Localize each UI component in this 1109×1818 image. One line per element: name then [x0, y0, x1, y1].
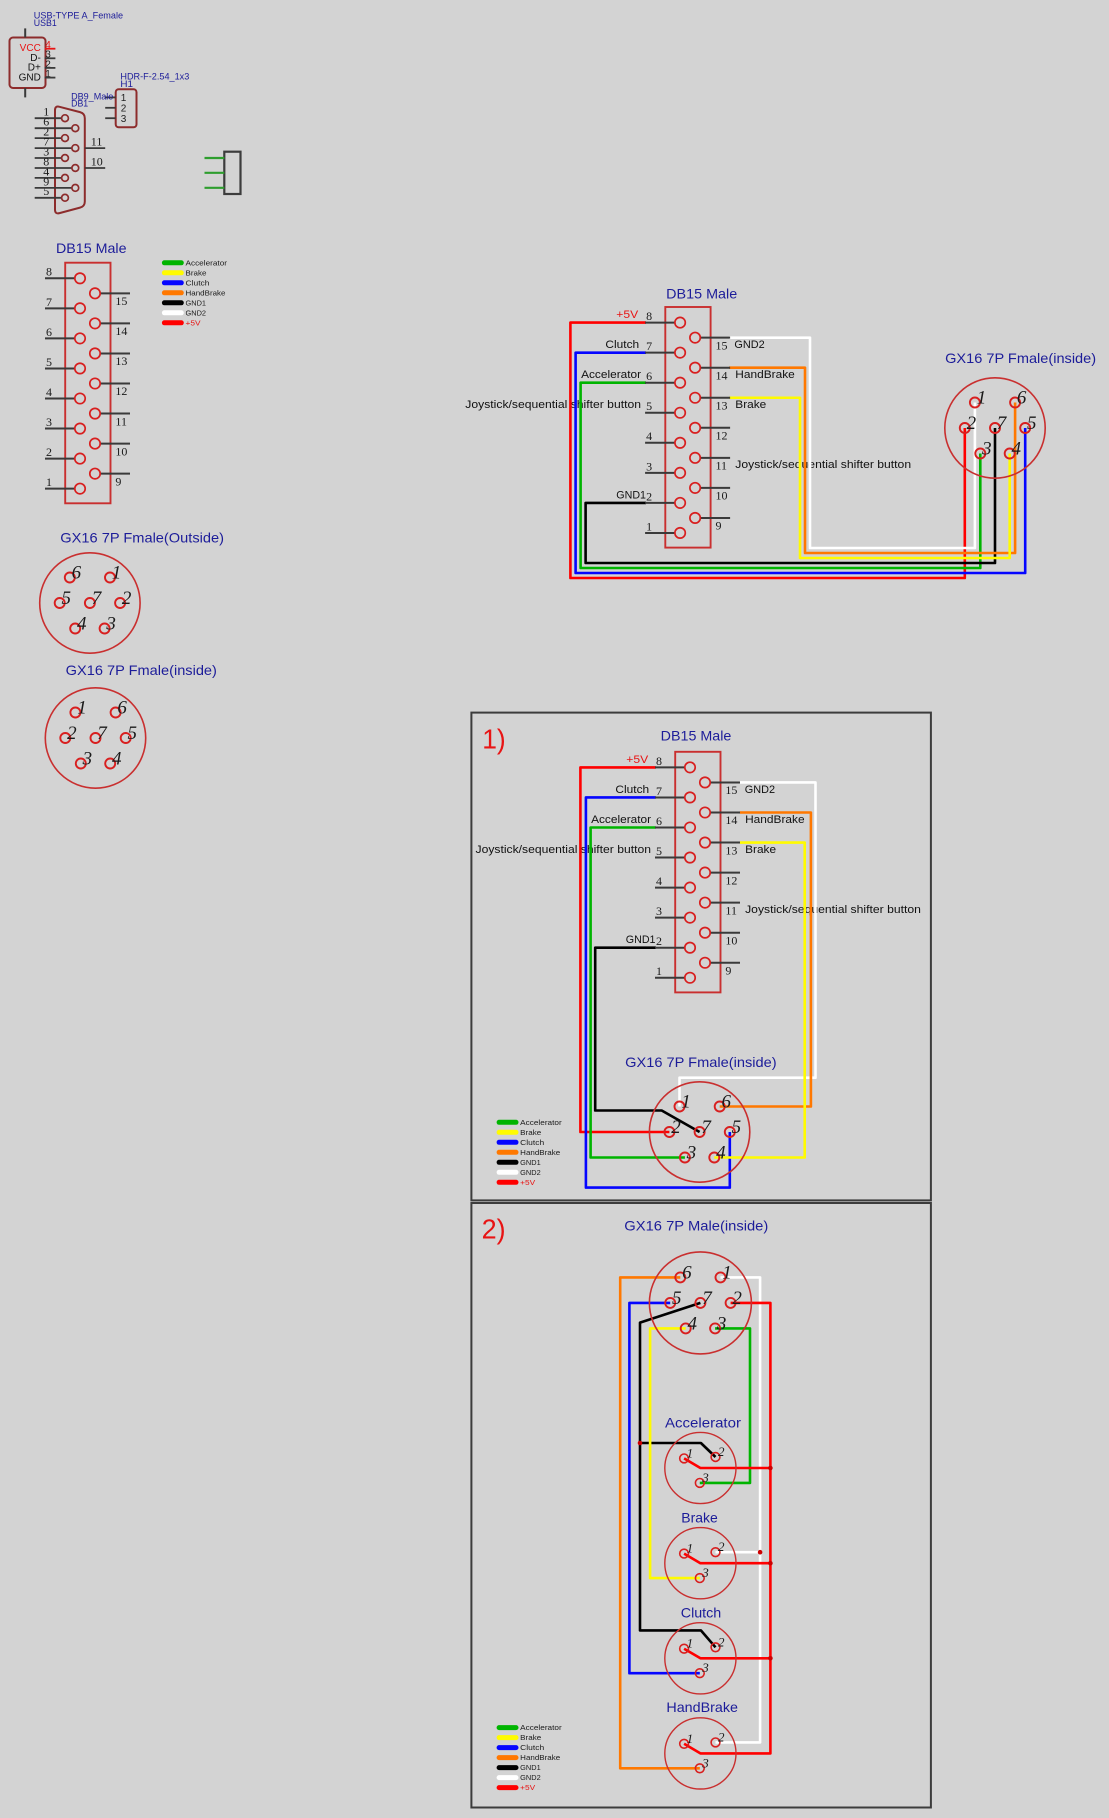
- title DB15 Male (box1): [661, 728, 732, 744]
- legend box1 Brake: [497, 1128, 542, 1137]
- svg-text:1: 1: [45, 69, 51, 80]
- net label GND2 (box1): [745, 784, 775, 796]
- svg-text:GND1: GND1: [626, 934, 656, 946]
- svg-text:4: 4: [112, 749, 122, 770]
- legend box1 HandBrake: [497, 1148, 561, 1157]
- Accelerator pin 2: [711, 1444, 725, 1461]
- connector DB1 body: [55, 107, 85, 214]
- net label +5V (box1): [626, 754, 649, 766]
- svg-text:4: 4: [688, 1313, 698, 1334]
- Brake pin 3: [695, 1565, 709, 1582]
- svg-text:1: 1: [687, 1445, 694, 1460]
- DB15-A pin 1: [45, 475, 85, 494]
- svg-text:Accelerator: Accelerator: [520, 1118, 562, 1127]
- GX16-Outside pin 7: [85, 588, 103, 609]
- DB15-box1 pin 9: [700, 958, 740, 978]
- label USB1 USB-TYPE A_Female: [34, 10, 123, 29]
- svg-text:DB15 Male: DB15 Male: [56, 240, 127, 256]
- DB15-box1 pin 13: [700, 837, 740, 857]
- DB1 pin 11: [85, 135, 105, 149]
- junction +5V at Accelerator: [768, 1466, 773, 1471]
- GX16-box1 pin 2: [664, 1117, 681, 1138]
- svg-text:14: 14: [725, 813, 737, 827]
- svg-text:1: 1: [687, 1541, 694, 1556]
- svg-text:GND2: GND2: [186, 308, 207, 317]
- USB1 pin 3 (D-): [45, 50, 56, 61]
- DB15-A pin 12: [90, 378, 130, 398]
- net label Joystick/sequential shifter button (left): [465, 399, 641, 411]
- svg-text:7: 7: [646, 339, 652, 353]
- DB15-box1 pin 5: [655, 844, 695, 863]
- wire Accelerator (green) DB15.6 to GX16.3: [581, 383, 981, 568]
- svg-text:GND2: GND2: [745, 784, 775, 796]
- DB15-box1 body: [675, 752, 720, 993]
- legend box2 GND1: [497, 1763, 541, 1772]
- DB1 pin 5: [35, 184, 69, 201]
- GX16-box1 pin 5: [725, 1117, 741, 1138]
- svg-text:3: 3: [701, 1660, 709, 1675]
- title GX16 7P Fmale(Outside): [60, 529, 224, 545]
- GX16-inside-A pin 4: [105, 749, 122, 770]
- GX16-mid pin 4: [1005, 439, 1022, 460]
- GX16-mid pin 5: [1020, 413, 1036, 434]
- DB15-box1 pin 1: [655, 964, 695, 983]
- svg-text:Joystick/sequential shifter bu: Joystick/sequential shifter button: [735, 459, 911, 471]
- DB15-A pin 7: [45, 295, 85, 314]
- svg-text:1: 1: [722, 1262, 732, 1283]
- svg-text:15: 15: [725, 783, 737, 797]
- wire HandBrake (orange) DB15.14 to GX16.6 (box1): [720, 813, 811, 1107]
- H1 pin 3: [105, 114, 127, 125]
- DB15-mid pin 11: [690, 453, 730, 473]
- wire Accelerator (green) GX16.3 to Accelerator.3: [700, 1328, 750, 1483]
- wire Brake (yellow) GX16.4 to Brake.3: [650, 1328, 700, 1578]
- svg-text:13: 13: [716, 398, 728, 412]
- svg-text:8: 8: [43, 154, 49, 168]
- net label +5V: [616, 309, 639, 321]
- title GX16 7P Fmale(inside) (middle): [945, 350, 1096, 366]
- connector H1 body: [116, 89, 137, 127]
- svg-text:4: 4: [656, 874, 662, 888]
- USB1 pin 4 (VCC): [45, 40, 56, 51]
- GX16-box1 pin 6: [715, 1092, 732, 1113]
- svg-text:6: 6: [722, 1092, 732, 1113]
- junction +5V at Clutch: [768, 1656, 773, 1661]
- legend box2 Accelerator: [497, 1723, 563, 1732]
- GX16-inside-A pin 1: [70, 698, 86, 719]
- svg-text:6: 6: [46, 325, 52, 339]
- HandBrake pin 3: [695, 1755, 709, 1772]
- title DB15 Male (top-left): [56, 240, 127, 256]
- svg-text:2: 2: [718, 1539, 725, 1554]
- GX16-box2 pin 7: [695, 1288, 713, 1309]
- svg-text:4: 4: [716, 1143, 726, 1164]
- GX16-inside-A body: [45, 688, 145, 788]
- GX16-box2 pin 6: [675, 1262, 692, 1283]
- GX16-box2 pin 3: [710, 1313, 726, 1334]
- title Clutch: [681, 1605, 722, 1621]
- DB15-A pin 3: [45, 415, 85, 434]
- legend top Accelerator: [162, 258, 228, 267]
- GX16-Outside body: [40, 553, 140, 653]
- net label Joystick/sequential shifter button (box1 left): [476, 844, 652, 856]
- svg-text:DB15 Male: DB15 Male: [666, 285, 737, 301]
- svg-text:Accelerator: Accelerator: [186, 258, 228, 267]
- DB1 pin 1: [35, 105, 69, 122]
- GX16-inside-A pin 2: [60, 723, 77, 744]
- svg-text:7: 7: [702, 1288, 713, 1309]
- Brake pin 1: [680, 1541, 693, 1558]
- wire Clutch (blue) DB15.7 to GX16.5: [576, 353, 1026, 573]
- DB1 pin 10: [85, 154, 105, 168]
- legend top Brake: [162, 268, 207, 277]
- svg-text:6: 6: [646, 369, 652, 383]
- svg-text:3: 3: [701, 1565, 709, 1580]
- DB15-mid pin 6: [645, 369, 685, 388]
- svg-text:HandBrake: HandBrake: [520, 1148, 560, 1157]
- svg-text:1): 1): [482, 724, 506, 755]
- svg-text:Clutch: Clutch: [520, 1743, 544, 1752]
- svg-text:GX16 7P Fmale(inside): GX16 7P Fmale(inside): [945, 350, 1096, 366]
- DB15-box1 pin 10: [700, 928, 740, 948]
- HandBrake body: [665, 1718, 736, 1789]
- svg-text:14: 14: [716, 368, 728, 382]
- legend box1 Accelerator: [497, 1118, 563, 1127]
- GX16-Outside pin 4: [70, 614, 87, 635]
- svg-text:3: 3: [686, 1143, 697, 1164]
- GX16-mid pin 7: [990, 413, 1008, 434]
- wire Clutch (blue) DB15.7 to GX16.5 (box1): [586, 797, 730, 1187]
- DB15-A pin 15: [90, 288, 130, 308]
- Clutch pin 2: [711, 1634, 725, 1651]
- svg-text:DB15 Male: DB15 Male: [661, 728, 732, 744]
- USB1 pin 2 (D+): [45, 59, 56, 70]
- svg-text:7: 7: [43, 135, 49, 149]
- net label HandBrake (box1): [745, 814, 805, 826]
- svg-text:3: 3: [981, 439, 992, 460]
- svg-text:13: 13: [115, 354, 127, 368]
- net label Accelerator (box1): [591, 814, 651, 826]
- net label GND1: [616, 489, 646, 501]
- svg-text:1: 1: [121, 93, 127, 104]
- svg-text:Clutch: Clutch: [615, 784, 649, 796]
- svg-text:GND2: GND2: [734, 339, 764, 351]
- svg-text:8: 8: [656, 754, 662, 768]
- DB15-mid pin 2: [645, 489, 685, 508]
- svg-text:5: 5: [62, 588, 72, 609]
- DB15-mid pin 15: [690, 332, 730, 352]
- Accelerator body: [665, 1432, 736, 1503]
- title DB15 Male (middle): [666, 285, 737, 301]
- svg-text:+5V: +5V: [616, 309, 639, 321]
- svg-text:1: 1: [687, 1731, 694, 1746]
- svg-text:3: 3: [716, 1313, 727, 1334]
- svg-text:3: 3: [121, 114, 127, 125]
- DB15-A pin 4: [45, 385, 85, 404]
- Brake body: [665, 1528, 736, 1599]
- DB15-A body: [65, 263, 110, 504]
- legend top +5V: [162, 318, 201, 327]
- DB15-mid pin 4: [645, 429, 685, 448]
- svg-text:3: 3: [82, 749, 93, 770]
- wire GND1 (black) DB15.2 to GX16.7: [586, 428, 995, 563]
- svg-text:1: 1: [687, 1636, 694, 1651]
- svg-text:10: 10: [725, 933, 737, 947]
- svg-text:2: 2: [732, 1288, 742, 1309]
- svg-text:Brake: Brake: [735, 399, 766, 411]
- wire GND2 (white) DB15.15 to GX16.1: [729, 338, 975, 548]
- GX16-mid pin 6: [1010, 388, 1027, 409]
- GX16-box2 pin 4: [681, 1313, 698, 1334]
- svg-text:11: 11: [725, 903, 737, 917]
- svg-text:Accelerator: Accelerator: [520, 1723, 562, 1732]
- GX16-mid pin 2: [960, 413, 977, 434]
- DB15-A pin 9: [90, 468, 130, 488]
- svg-text:Joystick/sequential shifter bu: Joystick/sequential shifter button: [465, 399, 641, 411]
- svg-text:6: 6: [43, 115, 49, 129]
- DB15-box1 pin 8: [655, 754, 695, 773]
- svg-text:HandBrake: HandBrake: [745, 814, 805, 826]
- svg-text:HandBrake: HandBrake: [735, 369, 795, 381]
- svg-text:6: 6: [1017, 388, 1027, 409]
- DB1 pin 8: [35, 154, 79, 171]
- svg-text:2: 2: [121, 104, 127, 115]
- svg-text:Clutch: Clutch: [186, 278, 210, 287]
- svg-text:9: 9: [716, 519, 722, 533]
- legend box1 GND1: [497, 1158, 541, 1167]
- svg-text:7: 7: [997, 413, 1008, 434]
- legend box2 GND2: [497, 1773, 541, 1782]
- wire +5V (red) Clutch.1 to bus: [684, 1649, 770, 1659]
- DB15-mid pin 9: [690, 513, 730, 533]
- svg-text:9: 9: [115, 474, 121, 488]
- Clutch body: [665, 1623, 736, 1694]
- svg-text:1: 1: [77, 698, 87, 719]
- HandBrake pin 1: [680, 1731, 693, 1748]
- GX16-Outside pin 1: [105, 563, 121, 584]
- svg-text:GND: GND: [19, 73, 41, 84]
- svg-text:5: 5: [646, 399, 652, 413]
- svg-text:5: 5: [732, 1117, 742, 1138]
- wire GND2 (white) DB15.15 to GX16.1 (box1): [680, 782, 816, 1106]
- Brake pin 2: [711, 1539, 725, 1556]
- svg-text:+5V: +5V: [520, 1178, 535, 1187]
- svg-text:GX16 7P Fmale(Outside): GX16 7P Fmale(Outside): [60, 529, 224, 545]
- svg-text:6: 6: [72, 563, 82, 584]
- DB15-box1 pin 6: [655, 814, 695, 833]
- wire +5V (red) DB15.8 to GX16.2 (box1): [580, 767, 669, 1132]
- svg-text:3: 3: [646, 459, 652, 473]
- DB15-mid pin 7: [645, 339, 685, 358]
- svg-text:HandBrake: HandBrake: [520, 1753, 560, 1762]
- GX16-box1 pin 3: [680, 1143, 696, 1164]
- DB15-box1 pin 15: [700, 777, 740, 797]
- svg-text:7: 7: [97, 723, 108, 744]
- svg-text:2): 2): [482, 1213, 506, 1244]
- svg-text:Brake: Brake: [681, 1509, 718, 1525]
- svg-text:GND2: GND2: [520, 1773, 541, 1782]
- svg-text:4: 4: [46, 385, 52, 399]
- svg-text:15: 15: [115, 294, 127, 308]
- GX16-mid body: [945, 378, 1045, 478]
- svg-text:+5V: +5V: [520, 1783, 535, 1792]
- net label Brake: [735, 399, 766, 411]
- svg-text:2: 2: [718, 1634, 725, 1649]
- DB1 pin 3: [35, 144, 69, 161]
- svg-text:4: 4: [1012, 439, 1022, 460]
- junction +5V at Brake: [768, 1561, 773, 1566]
- svg-text:1: 1: [977, 388, 987, 409]
- junction GND2 at Brake: [758, 1550, 763, 1555]
- svg-text:1: 1: [112, 563, 122, 584]
- legend box2 Brake: [497, 1733, 542, 1742]
- svg-text:11: 11: [91, 135, 103, 149]
- svg-text:Brake: Brake: [186, 268, 207, 277]
- wire HandBrake (orange) DB15.14 to GX16.6: [729, 368, 1015, 553]
- junction GND1 branch: [638, 1441, 643, 1446]
- svg-text:7: 7: [46, 295, 52, 309]
- net label Joystick/sequential shifter button (right): [735, 459, 911, 471]
- wire +5V (red) Accelerator.1 to bus: [684, 1458, 770, 1468]
- svg-text:12: 12: [725, 873, 737, 887]
- DB15-box1 pin 12: [700, 867, 740, 887]
- svg-text:1: 1: [681, 1092, 691, 1113]
- svg-text:GND1: GND1: [616, 489, 646, 501]
- Clutch pin 3: [695, 1660, 709, 1677]
- svg-text:2: 2: [718, 1729, 725, 1744]
- Accelerator pin 3: [695, 1470, 709, 1487]
- net label HandBrake: [735, 369, 795, 381]
- svg-text:Clutch: Clutch: [605, 339, 639, 351]
- svg-text:Joystick/sequential shifter bu: Joystick/sequential shifter button: [476, 844, 652, 856]
- net label GND2: [734, 339, 764, 351]
- svg-text:8: 8: [646, 309, 652, 323]
- GX16-mid pin 3: [975, 439, 991, 460]
- svg-text:9: 9: [725, 963, 731, 977]
- DB15-A pin 14: [90, 318, 130, 338]
- connector J1 body: [224, 152, 240, 194]
- legend box2 Clutch: [497, 1743, 545, 1752]
- net label Brake (box1): [745, 844, 776, 856]
- GX16-inside-A pin 6: [111, 698, 128, 719]
- GX16-box2 pin 5: [665, 1288, 681, 1309]
- HandBrake pin 2: [711, 1729, 725, 1746]
- GX16-Outside pin 6: [65, 563, 82, 584]
- svg-text:5: 5: [128, 723, 138, 744]
- svg-text:2: 2: [671, 1117, 681, 1138]
- DB15-mid pin 14: [690, 363, 730, 383]
- svg-text:HandBrake: HandBrake: [186, 288, 226, 297]
- DB15-A pin 13: [90, 348, 130, 368]
- legend box2 HandBrake: [497, 1753, 561, 1762]
- GX16-inside-A pin 5: [121, 723, 137, 744]
- legend box1 Clutch: [497, 1138, 545, 1147]
- svg-text:14: 14: [115, 324, 127, 338]
- DB15-mid pin 12: [690, 423, 730, 443]
- frame box 2: [471, 1203, 931, 1808]
- DB15-mid pin 10: [690, 483, 730, 503]
- J1 pin 1: [205, 157, 225, 159]
- svg-text:15: 15: [716, 338, 728, 352]
- wire Clutch (blue) GX16.5 to Clutch.3: [629, 1303, 699, 1673]
- title HandBrake: [666, 1699, 738, 1715]
- legend box1 +5V: [497, 1178, 536, 1187]
- wire GND2 stub (white) Brake.2 to bus: [716, 1551, 761, 1554]
- label 1): [482, 724, 506, 755]
- GX16-inside-A pin 7: [91, 723, 109, 744]
- svg-text:5: 5: [1027, 413, 1037, 434]
- svg-text:Brake: Brake: [520, 1128, 541, 1137]
- svg-text:2: 2: [122, 588, 132, 609]
- title GX16 7P Male(inside): [624, 1218, 768, 1234]
- label DB1 DB9_Male: [71, 91, 113, 109]
- svg-text:6: 6: [117, 698, 127, 719]
- H1 pin 2: [105, 104, 127, 115]
- svg-text:7: 7: [701, 1117, 712, 1138]
- svg-text:11: 11: [716, 459, 728, 473]
- DB15-box1 pin 2: [655, 934, 695, 953]
- DB15-mid pin 8: [645, 309, 685, 328]
- net label Joystick/sequential shifter button (box1 right): [745, 904, 921, 916]
- svg-text:GND1: GND1: [186, 298, 207, 307]
- svg-text:3: 3: [656, 904, 662, 918]
- svg-text:GX16 7P Male(inside): GX16 7P Male(inside): [624, 1218, 768, 1234]
- wire GND1 branch (black) to Accelerator.2: [640, 1443, 716, 1457]
- svg-text:13: 13: [725, 843, 737, 857]
- svg-text:+5V: +5V: [186, 318, 201, 327]
- DB1 pin 2: [35, 125, 69, 142]
- legend top HandBrake: [162, 288, 226, 297]
- svg-text:USB1: USB1: [34, 18, 57, 29]
- GX16-Outside pin 2: [115, 588, 132, 609]
- DB15-A pin 11: [90, 408, 130, 428]
- svg-text:6: 6: [682, 1262, 692, 1283]
- label 2): [482, 1213, 506, 1244]
- DB15-box1 pin 3: [655, 904, 695, 923]
- legend box2 +5V: [497, 1783, 536, 1792]
- svg-text:3: 3: [46, 415, 52, 429]
- DB15-mid pin 1: [645, 519, 685, 538]
- legend top Clutch: [162, 278, 210, 287]
- svg-text:5: 5: [672, 1288, 682, 1309]
- legend top GND2: [162, 308, 206, 317]
- GX16-box2 body: [649, 1252, 751, 1354]
- svg-text:Accelerator: Accelerator: [665, 1414, 741, 1430]
- title Brake: [681, 1509, 718, 1525]
- GX16-box1 body: [649, 1082, 749, 1182]
- legend top GND1: [162, 298, 206, 307]
- Clutch pin 1: [680, 1636, 693, 1653]
- Accelerator pin 1: [680, 1445, 693, 1462]
- svg-text:2: 2: [46, 445, 52, 459]
- GX16-Outside pin 3: [100, 614, 116, 635]
- svg-text:GND1: GND1: [520, 1763, 541, 1772]
- DB15-mid pin 3: [645, 459, 685, 478]
- DB1 pin 7: [35, 135, 79, 152]
- DB15-A pin 6: [45, 325, 85, 344]
- GX16-box1 pin 4: [709, 1143, 726, 1164]
- label H1 HDR-F-2.54_1x3: [120, 72, 189, 91]
- GX16-box2 pin 1: [716, 1262, 732, 1283]
- wire GND2 (white) GX16.1 to HandBrake.2: [716, 1277, 761, 1742]
- svg-text:10: 10: [115, 444, 127, 458]
- svg-text:5: 5: [46, 355, 52, 369]
- svg-text:11: 11: [115, 414, 127, 428]
- GX16-inside-A pin 3: [76, 749, 92, 770]
- svg-text:2: 2: [967, 413, 977, 434]
- svg-text:+5V: +5V: [626, 754, 649, 766]
- svg-text:4: 4: [77, 614, 87, 635]
